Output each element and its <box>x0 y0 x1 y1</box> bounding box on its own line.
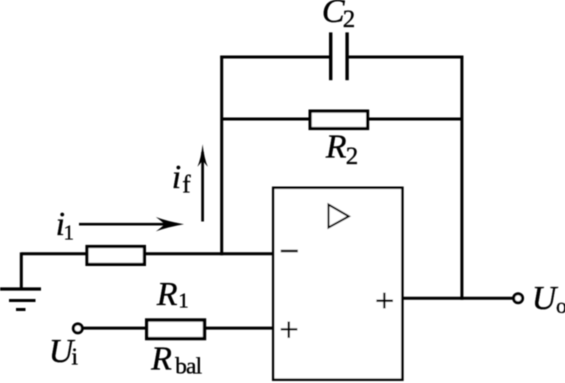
svg-text:i: i <box>71 345 78 371</box>
svg-text:R: R <box>325 129 347 166</box>
svg-text:R: R <box>150 341 172 378</box>
svg-text:2: 2 <box>343 6 356 33</box>
svg-text:U: U <box>532 280 559 317</box>
svg-text:bal: bal <box>175 354 203 380</box>
svg-text:f: f <box>182 172 191 199</box>
svg-text:i: i <box>172 159 181 196</box>
svg-text:1: 1 <box>64 220 75 244</box>
svg-text:o: o <box>556 293 565 318</box>
svg-text:R: R <box>156 276 178 313</box>
svg-text:2: 2 <box>346 143 359 170</box>
svg-text:C: C <box>322 0 345 30</box>
svg-text:1: 1 <box>178 289 189 313</box>
